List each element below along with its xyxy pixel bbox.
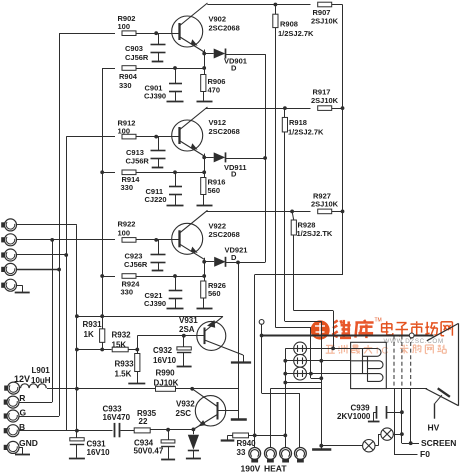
wire R922 to base	[136, 239, 179, 241]
wire C911 to gnd	[175, 195, 177, 206]
wire R928 staircase	[294, 310, 333, 312]
wire R924 to R926	[136, 276, 205, 278]
wire V912 collector rail	[205, 108, 310, 110]
node heater3 feed	[283, 434, 287, 438]
resistor R940	[233, 433, 249, 438]
wire R904 line	[102, 68, 115, 70]
wire R932 to junction	[128, 349, 137, 351]
ground R940	[221, 439, 235, 441]
svg-text:2SA: 2SA	[179, 325, 195, 334]
resistor R928	[291, 220, 296, 235]
wire G2 pin down	[401, 388, 403, 443]
wire B column	[66, 137, 68, 431]
svg-text:V902: V902	[209, 15, 227, 24]
svg-text:100: 100	[118, 127, 131, 136]
wire screen pin down	[410, 388, 412, 443]
wire V931 collector stub	[243, 355, 245, 362]
node R916 top	[202, 170, 206, 174]
node VD911-lineA	[263, 156, 267, 160]
heater pin 2	[265, 448, 277, 460]
svg-text:CJ390: CJ390	[144, 299, 166, 308]
resistor R914	[122, 170, 136, 175]
node V932 emitter	[192, 428, 196, 432]
crt dashed pin screen	[410, 335, 412, 388]
svg-text:D: D	[231, 170, 237, 179]
wire R931 stem top	[102, 316, 104, 329]
wire rail1 to right rail	[332, 4, 343, 6]
wire gun1 right lead	[307, 348, 351, 350]
wire C913 stem	[158, 137, 160, 151]
inductor L901	[21, 384, 47, 388]
diode VD911	[204, 157, 214, 159]
wire C901 stem	[175, 68, 177, 84]
svg-text:1.5K: 1.5K	[115, 370, 132, 379]
svg-text:2SJ10K: 2SJ10K	[311, 199, 339, 208]
crt neck terminal	[409, 333, 414, 338]
svg-text:CJ56R: CJ56R	[124, 260, 148, 269]
wire G1 down	[261, 336, 263, 394]
node gun12 join	[283, 359, 287, 363]
svg-text:16V10: 16V10	[153, 356, 177, 365]
svg-text:HV: HV	[428, 423, 440, 433]
wire conn3	[17, 254, 67, 256]
wire rail3 right	[332, 211, 343, 213]
node gap1-pin	[400, 432, 404, 436]
wire F0 line	[394, 454, 418, 456]
node C932 top	[182, 334, 186, 338]
svg-text:2SJ10K: 2SJ10K	[311, 96, 339, 105]
svg-text:C903: C903	[125, 44, 143, 53]
resistor R990	[156, 386, 176, 391]
node 12V-L901	[75, 387, 79, 391]
svg-text:R922: R922	[118, 220, 136, 229]
svg-text:R940: R940	[237, 439, 257, 448]
wire B input	[19, 430, 113, 432]
node G1 line	[260, 334, 264, 338]
wire gun2 right lead	[307, 360, 351, 362]
resistor R931	[100, 329, 105, 343]
wire V912 emitter junction	[204, 154, 206, 178]
node B-conn3 junction	[64, 253, 68, 257]
svg-text:R990: R990	[156, 369, 176, 378]
wire gun1 left lead	[285, 348, 293, 350]
wire gun common branch	[285, 382, 321, 384]
svg-text:IC: IC	[376, 345, 392, 356]
wire C903 to ground	[158, 53, 160, 61]
wire heater4 feed	[262, 393, 300, 395]
node R918line gun2	[319, 359, 323, 363]
node R914 left	[100, 170, 104, 174]
wire G column	[59, 33, 61, 416]
svg-text:2SC2068: 2SC2068	[209, 23, 240, 32]
node lineB gun3	[309, 372, 313, 376]
svg-text:V912: V912	[209, 118, 227, 127]
node C921 top	[173, 274, 177, 278]
svg-text:1/2SJ2.7K: 1/2SJ2.7K	[288, 128, 324, 137]
capacitor C939	[376, 406, 378, 419]
node stage2 base junction	[154, 135, 158, 139]
capacitor C934 plus plate	[161, 440, 175, 443]
wire C931 stem	[76, 431, 78, 438]
wire C923 stem	[158, 240, 160, 254]
node R931-R932 line	[100, 348, 104, 352]
capacitor C901	[169, 83, 182, 85]
ground C913	[152, 167, 164, 169]
svg-text:16V470: 16V470	[103, 413, 131, 422]
svg-text:R918: R918	[289, 118, 307, 127]
wire C939 left gnd	[374, 412, 377, 414]
crt dashed pin G2	[401, 335, 403, 388]
ground C931	[69, 458, 85, 460]
node 12V-rail corner	[75, 314, 79, 318]
node R928 top	[290, 210, 294, 214]
wire F0 pin down	[394, 388, 396, 454]
wire neck top line	[262, 335, 434, 337]
svg-text:HEAT: HEAT	[264, 463, 287, 473]
node R926 top	[202, 274, 206, 278]
spark gap 1	[381, 428, 393, 440]
socket contact 2	[351, 361, 383, 369]
node R906 top	[202, 66, 206, 70]
svg-text:R932: R932	[112, 331, 132, 340]
wire R928 stem	[292, 211, 294, 220]
ground C903	[152, 61, 164, 63]
wire R918 line down	[284, 132, 286, 321]
wire 12V rail to V931	[77, 316, 223, 318]
wire HV lead	[435, 395, 442, 403]
diode VD901	[204, 53, 214, 55]
crt dashed pin F0	[393, 335, 395, 388]
wire emitter junction	[193, 429, 195, 434]
resistor R935	[134, 428, 150, 433]
wire R935 to emitter	[150, 429, 193, 431]
ground C911	[167, 205, 184, 207]
transistor V922	[172, 223, 203, 254]
capacitor C932 plus plate	[177, 347, 191, 350]
capacitor C903	[151, 44, 166, 46]
node screen junction	[409, 441, 413, 445]
resistor R907	[318, 2, 332, 7]
svg-text:GND: GND	[19, 438, 38, 448]
wire R928 line down	[293, 235, 295, 311]
wire V931 base line	[137, 336, 139, 350]
wire lineB staircase	[275, 327, 311, 329]
wire C931 to gnd	[76, 445, 78, 458]
connector J2 R loop	[1, 237, 4, 242]
connector G input	[4, 413, 7, 418]
svg-text:R908: R908	[280, 20, 298, 29]
node R918 top	[283, 106, 287, 110]
node 12V-R932 line	[75, 348, 79, 352]
capacitor C921	[169, 290, 183, 292]
wire V902 collector corner	[207, 4, 310, 6]
wire R914 line	[102, 172, 115, 174]
wire C913 to ground	[158, 159, 160, 167]
svg-text:100: 100	[118, 22, 131, 31]
svg-text:1K: 1K	[84, 330, 94, 339]
wire R916 to gnd	[203, 195, 205, 206]
wire gap2 right	[375, 445, 378, 447]
svg-text:330: 330	[121, 288, 134, 297]
svg-text:TM: TM	[375, 318, 382, 324]
ground socket heavy	[312, 448, 331, 451]
wire R input	[19, 402, 52, 404]
wire stage1 base from left column	[59, 33, 115, 35]
wire R990 to V932	[176, 388, 193, 390]
wire VD921 to lineA corner	[226, 262, 265, 264]
svg-text:WWW.DZSC.COM: WWW.DZSC.COM	[384, 338, 444, 345]
socket box	[351, 342, 387, 388]
node C901 top	[173, 66, 177, 70]
svg-text:V932: V932	[176, 400, 195, 409]
wire C932 to gnd	[183, 353, 185, 367]
wire R924 line	[102, 276, 115, 278]
ground GND input	[15, 454, 30, 456]
transistor V932	[195, 396, 225, 426]
resistor R922	[122, 238, 136, 243]
ground C939	[368, 421, 380, 423]
wire C901 to gnd	[175, 92, 177, 101]
node VD921-clamp	[236, 261, 240, 265]
svg-text:C932: C932	[153, 346, 173, 355]
wire clamp line	[238, 262, 240, 419]
wire C921 stem	[175, 276, 177, 291]
transistor V902	[172, 16, 203, 47]
svg-text:R931: R931	[83, 320, 103, 329]
watermark dzsc logo	[311, 318, 453, 357]
crt neck bottom	[386, 388, 427, 390]
heater pin 3	[280, 448, 292, 460]
svg-text:DJ10K: DJ10K	[154, 379, 179, 388]
svg-text:CJ220: CJ220	[145, 195, 167, 204]
wire VD911 to lineA	[225, 158, 265, 160]
wire C933 to R935	[120, 430, 134, 432]
wire C903 stem	[158, 33, 160, 44]
svg-text:33: 33	[237, 448, 246, 457]
node stage3 base junction	[154, 238, 158, 242]
svg-text:1/2SJ2.TK: 1/2SJ2.TK	[297, 229, 333, 238]
gun circle 2	[294, 354, 307, 367]
ground R906	[197, 101, 213, 103]
svg-text:2SC2068: 2SC2068	[209, 127, 240, 136]
transistor V931 pnp	[197, 321, 226, 350]
heater pin 1	[249, 448, 261, 460]
wire R926 to gnd	[203, 298, 205, 308]
resistor R904	[122, 66, 136, 71]
connector J1 12V loop	[1, 222, 4, 227]
resistor R917	[318, 106, 332, 111]
wire V922 collector rail	[206, 211, 310, 213]
svg-text:C939: C939	[351, 403, 371, 412]
gun circle 3	[294, 367, 307, 380]
connector J3 B loop	[1, 252, 4, 257]
node rail3-right rail	[341, 210, 345, 214]
socket contact 3	[351, 374, 383, 382]
node R924 left	[100, 274, 104, 278]
wire C932 stem	[183, 336, 185, 347]
wire C923 to ground	[158, 263, 160, 271]
wire R918 staircase	[285, 321, 321, 323]
svg-text:R904: R904	[119, 72, 138, 81]
wire R912 to base	[136, 136, 179, 138]
ground R916	[197, 205, 213, 207]
ground C923	[152, 270, 164, 272]
resistor R906	[201, 75, 206, 92]
wire C934 stem	[168, 430, 170, 440]
resistor R933	[135, 354, 140, 372]
wire R914 to R916	[136, 172, 205, 174]
svg-text:V931: V931	[179, 316, 198, 325]
svg-text:15K: 15K	[112, 341, 127, 350]
wire C921 to gnd	[175, 299, 177, 308]
wire rail2 right	[332, 108, 343, 110]
capacitor C931 plus plate	[70, 438, 84, 441]
wire G1 terminal	[259, 320, 264, 325]
wire stage2 base	[66, 136, 115, 138]
svg-text:2SC: 2SC	[176, 409, 192, 418]
resistor R932	[112, 347, 128, 352]
resistor R926	[201, 281, 206, 298]
connector R input	[4, 400, 7, 405]
svg-text:CJ56R: CJ56R	[125, 53, 149, 62]
wire conn4	[17, 269, 60, 271]
crt funnel bottom flare	[425, 389, 458, 406]
connector 12V input	[4, 386, 7, 391]
svg-text:470: 470	[208, 85, 221, 94]
capacitor C931 plate2	[70, 444, 84, 446]
ground VD932	[186, 458, 201, 460]
node gun3gnd join	[319, 376, 323, 380]
node C911 top	[173, 170, 177, 174]
crt funnel face	[458, 323, 460, 405]
node R940-heater1	[253, 434, 257, 438]
wire 330 common column	[102, 68, 104, 316]
node rail2-right rail	[341, 106, 345, 110]
ground C921	[167, 308, 184, 310]
node gap gnd	[319, 444, 323, 448]
wire R931 bottom	[102, 342, 104, 349]
ground R933	[128, 383, 145, 385]
wire gun2 left lead	[285, 360, 293, 362]
wire 12V column	[76, 225, 78, 438]
spark gap 2	[363, 440, 375, 452]
wire C911 stem	[175, 172, 177, 186]
svg-text:190V: 190V	[241, 463, 261, 473]
capacitor C932 plate2	[177, 352, 191, 354]
wire gap1 left	[378, 434, 381, 436]
wire VD901 to lineA	[225, 54, 265, 56]
svg-text:D: D	[231, 64, 237, 73]
resistor R918	[282, 117, 287, 132]
svg-text:330: 330	[119, 81, 132, 90]
wire lineA VD outputs	[265, 54, 267, 262]
wire R906 to gnd	[203, 92, 205, 101]
svg-text:560: 560	[208, 186, 221, 195]
wire R902 to base	[136, 33, 179, 35]
svg-text:D: D	[231, 253, 237, 262]
svg-text:V922: V922	[209, 221, 227, 230]
wire R990 line to clamp	[192, 388, 239, 390]
connector GND input	[4, 445, 7, 450]
node V932 collector top	[190, 387, 194, 391]
wire gun common down	[285, 361, 287, 448]
wire L901 to node	[47, 388, 77, 390]
resistor R912	[122, 134, 136, 139]
wire 12V feed line	[77, 388, 156, 390]
wire stage3 base	[18, 239, 116, 241]
wire R908 stem	[275, 5, 277, 15]
node stage3 base R-line	[50, 238, 54, 242]
node 330col-12V rail	[100, 314, 104, 318]
wire G input	[19, 416, 59, 418]
wire V922 emitter junction	[204, 258, 206, 281]
ground C934	[161, 459, 175, 461]
ground C901	[167, 101, 184, 103]
node 12V-B line	[75, 429, 79, 433]
wire gun3 right lead	[307, 373, 351, 375]
diode VD932	[188, 435, 199, 450]
wire R904 to R906	[136, 68, 205, 70]
ground conn5	[15, 292, 30, 294]
node stage1 base-cap junction	[154, 31, 158, 35]
wire R918 stem	[284, 108, 286, 117]
wire conn1	[17, 224, 77, 226]
node V922 emitter	[202, 260, 206, 264]
wire SCREEN line	[402, 443, 419, 445]
svg-text:R: R	[19, 393, 25, 403]
ground C932	[177, 366, 192, 368]
svg-text:22: 22	[139, 417, 148, 426]
node C934 top	[166, 428, 170, 432]
wire gun3 left lead	[285, 373, 293, 375]
svg-text:560: 560	[208, 289, 221, 298]
wire GND stem	[19, 447, 23, 449]
svg-text:2KV1000: 2KV1000	[337, 412, 371, 421]
svg-text:CJ56R: CJ56R	[126, 157, 150, 166]
node gun3 join	[283, 372, 287, 376]
wire V932 base line	[217, 410, 239, 412]
wire R940 line	[249, 435, 286, 437]
wire V902 emitter junction	[204, 50, 206, 75]
crt anode tick	[438, 388, 450, 397]
resistor R902	[122, 31, 136, 36]
diode VD921	[204, 261, 214, 263]
wire R933 stem	[137, 350, 139, 354]
capacitor C923	[151, 254, 166, 256]
heater pin 4	[295, 448, 307, 460]
wire C934 to gnd	[168, 446, 170, 458]
transistor V912	[172, 120, 203, 151]
wire R940 left	[228, 435, 233, 437]
svg-text:R933: R933	[115, 360, 135, 369]
crt funnel top flare	[427, 323, 459, 340]
connector J4 G loop	[1, 267, 4, 272]
node G-conn4 junction	[57, 268, 61, 272]
resistor R916	[201, 178, 206, 195]
wire R column	[52, 240, 54, 402]
resistor R924	[122, 274, 136, 279]
wire heater2 feed	[270, 388, 321, 390]
node R908 top	[274, 3, 278, 7]
capacitor C933 plates	[114, 423, 116, 437]
capacitor C913	[151, 150, 166, 152]
svg-text:L901: L901	[32, 366, 51, 375]
svg-text:50V0.47: 50V0.47	[134, 447, 164, 456]
ground R926	[197, 308, 213, 310]
node gun common branch	[283, 381, 287, 385]
gun circle 1	[294, 342, 307, 355]
wire R932 line	[77, 349, 112, 351]
